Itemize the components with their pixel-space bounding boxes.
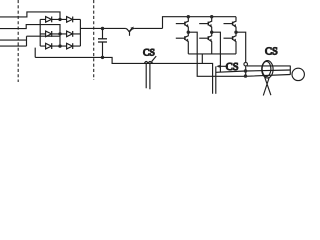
IGBT Q6 lower leg3	[224, 32, 237, 54]
node phase V at bus	[244, 69, 247, 72]
wire phase B input	[0, 25, 60, 34]
diode D3	[46, 31, 52, 37]
arrow for CS2	[216, 65, 228, 68]
node row2 midpoint	[58, 32, 61, 35]
dashed boundary left	[17, 0, 19, 82]
node phase leg1	[187, 31, 190, 34]
node phase leg2	[210, 31, 213, 34]
wire phase V output	[212, 32, 291, 72]
wire DC minus rail	[35, 48, 212, 94]
diode D5	[46, 43, 52, 49]
wire emitter rail	[188, 53, 236, 55]
diode D2	[67, 17, 73, 23]
connector circle phase W	[244, 62, 248, 66]
node phase U at bus	[244, 74, 247, 77]
wire phase W output	[236, 32, 290, 76]
wire phase C input	[0, 36, 60, 46]
arrow for CS1	[150, 56, 156, 63]
wire bridge row1	[40, 18, 80, 20]
node top rail leg2	[210, 15, 213, 18]
node DC minus at capacitor	[101, 56, 104, 59]
IGBT Q1 upper leg1	[176, 17, 189, 33]
wire phase A input	[0, 12, 60, 20]
svg-text:CS: CS	[265, 47, 278, 58]
wire emitter rail to DC minus	[201, 54, 203, 64]
wire bridge left bus	[39, 19, 41, 46]
motor terminal bar	[289, 66, 291, 75]
wire bridge right bus	[79, 19, 81, 46]
capacitor C1	[98, 29, 107, 58]
diode D6	[67, 43, 73, 49]
diode D1	[46, 17, 52, 23]
IGBT Q2 lower leg1	[176, 32, 189, 54]
wire DC plus rail	[80, 17, 236, 29]
motor M	[292, 68, 304, 80]
IGBT Q4 lower leg2	[199, 32, 212, 54]
IGBT Q5 upper leg3	[224, 17, 237, 33]
IGBT Q3 upper leg2	[199, 17, 212, 33]
svg-text:CS: CS	[226, 62, 239, 73]
svg-text:CS: CS	[143, 48, 155, 59]
current sensor CS3 loop around motor lines	[262, 61, 273, 96]
wire bridge row2	[40, 33, 80, 35]
current sensor CS2 lead	[215, 66, 217, 93]
wire phase U output	[188, 32, 290, 76]
dashed boundary right	[93, 0, 95, 80]
wire bridge row3	[40, 45, 80, 47]
current sensor CS1 loops on DC minus rail	[144, 62, 151, 90]
sensor arrow on DC plus rail	[126, 27, 135, 36]
node phase leg3	[234, 31, 237, 34]
node row1 midpoint	[58, 18, 61, 21]
node top rail leg1	[187, 15, 190, 18]
node DC plus at capacitor	[101, 27, 104, 30]
diode D4	[67, 31, 73, 37]
node row3 midpoint	[58, 44, 61, 47]
